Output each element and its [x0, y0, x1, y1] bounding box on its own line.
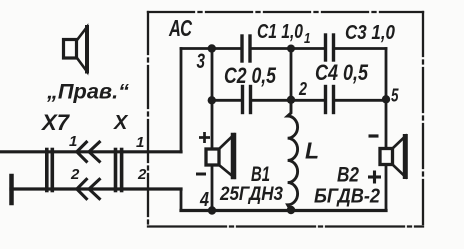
wire bottom rail — [181, 209, 386, 212]
svg-text:С4 0,5: С4 0,5 — [315, 60, 369, 85]
wire second rail C2 to C4 — [252, 99, 323, 102]
svg-text:2: 2 — [70, 166, 80, 183]
svg-text:„Прав.“: „Прав.“ — [46, 81, 130, 104]
plus sign B2 — [368, 171, 381, 184]
svg-text:1: 1 — [136, 134, 144, 151]
svg-text:С2 0,5: С2 0,5 — [224, 63, 277, 88]
wire second rail from riser — [212, 99, 241, 102]
svg-text:С3 1,0: С3 1,0 — [345, 22, 395, 44]
junction node 5 — [382, 95, 390, 103]
svg-text:Х7: Х7 — [40, 110, 71, 135]
junction coil bottom — [287, 206, 295, 214]
capacitor C1 — [242, 36, 250, 61]
wire W2 drop to bottom rail — [180, 189, 183, 211]
connector mating arrow on pin 1 (chevrons) — [77, 141, 101, 163]
AC enclosure box: right edge — [422, 12, 424, 227]
AC enclosure box (dash-dot): top edge — [148, 11, 423, 13]
svg-text:1: 1 — [304, 30, 311, 47]
plus sign B1 — [199, 132, 210, 143]
wire W2 pin2 from amplifier (left horizontal) — [11, 187, 181, 190]
connector mating arrow on pin 2 (chevrons) — [77, 178, 101, 200]
junction node 1 — [287, 45, 295, 53]
wire top rail C3 to right corner — [335, 47, 386, 50]
svg-text:2: 2 — [137, 166, 147, 183]
AC enclosure box: bottom edge — [148, 225, 423, 227]
junction node 2 — [287, 96, 295, 104]
junction node 4 — [208, 206, 216, 214]
wire second rail C4 to node 5 — [335, 99, 386, 102]
AC enclosure box: left edge — [147, 12, 149, 227]
svg-text:БГДВ-2: БГДВ-2 — [314, 186, 380, 208]
capacitor C3 — [326, 35, 334, 60]
speaker B1 symbol — [206, 136, 234, 177]
minus sign B1 — [196, 173, 206, 176]
svg-text:1: 1 — [69, 133, 77, 150]
wire riser node3 down to B1 — [211, 49, 214, 150]
terminal bar left end of W2 — [9, 176, 14, 203]
svg-text:25ГДН3: 25ГДН3 — [219, 183, 283, 205]
wire link node1 to node2 — [290, 49, 293, 101]
capacitor C2 — [243, 87, 251, 113]
svg-text:Х: Х — [113, 112, 129, 134]
wire W1 pin1 from amplifier (left horizontal) — [0, 150, 181, 153]
speaker icon (right channel pictogram) — [64, 27, 88, 72]
svg-text:5: 5 — [391, 86, 399, 106]
svg-text:АС: АС — [168, 15, 192, 41]
minus sign B2 — [369, 134, 379, 137]
capacitor C4 — [326, 87, 334, 113]
wire B2 bottom to bottom rail — [385, 165, 388, 211]
svg-text:3: 3 — [197, 50, 206, 73]
connector X contact bars — [116, 150, 122, 191]
inductor L coil — [288, 102, 298, 209]
junction row2 tap — [208, 96, 216, 104]
svg-text:С1 1,0: С1 1,0 — [257, 21, 303, 43]
wire B1 bottom to bottom rail — [211, 165, 214, 211]
svg-text:4: 4 — [199, 189, 209, 211]
junction node 3 — [208, 44, 216, 52]
svg-text:2: 2 — [298, 79, 307, 99]
wire riser pin1 up to top rail — [180, 49, 183, 152]
svg-text:В2: В2 — [337, 164, 359, 187]
wire top rail C1 to C3 — [252, 47, 324, 50]
wire top rail left segment — [181, 47, 240, 50]
wire right riser from top rail through node5 to B2 — [385, 49, 388, 149]
connector X7 contact bars — [47, 150, 53, 191]
speaker B2 symbol — [380, 137, 405, 177]
svg-text:L: L — [305, 138, 319, 164]
